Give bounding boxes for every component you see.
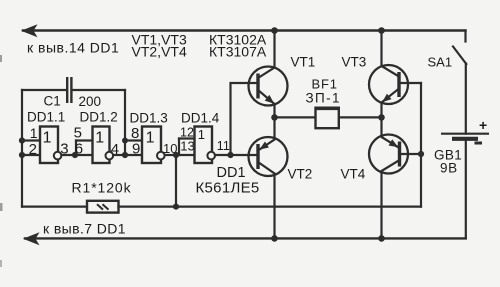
DD1.3 pin 8 wire	[125, 139, 142, 141]
loop top wire left segment to C1	[22, 89, 66, 91]
top supply rail (к выв.14 DD1)	[23, 29, 466, 31]
gate DD1.4 box	[195, 127, 213, 164]
resistor R1 right wire to transistor base bus	[119, 206, 422, 208]
junction dot: DD1.2 out node	[122, 152, 128, 158]
DD1.2 pin 6 wire	[76, 154, 93, 156]
R1 power-rating marks	[97, 204, 109, 209]
VT3 base wire	[399, 82, 421, 84]
DD1.4 pin 13 wire	[176, 154, 195, 156]
junction dot: VT2 collector at bottom rail	[271, 235, 278, 242]
junction dot: loop to DD1.3 pin8	[122, 138, 128, 144]
DD1.4 output wire pin 11	[215, 154, 257, 156]
VT4 circle	[369, 135, 408, 174]
junction dot: DD1.1 out / DD1.2 in	[72, 152, 78, 158]
junction dot: VT1 collector at top rail	[271, 27, 278, 34]
transistor VT2 (PNP)	[249, 117, 313, 238]
VT3 emitter arrow	[382, 94, 392, 103]
svg-text:VT4: VT4	[341, 167, 366, 182]
svg-text:1: 1	[43, 129, 52, 146]
DD1.2 output wire pin 4	[113, 154, 125, 156]
battery bottom wire to bottom rail	[465, 141, 467, 239]
VT1 emitter arrow	[265, 95, 275, 104]
DD1.2 input step wire	[75, 141, 77, 156]
svg-text:8: 8	[131, 125, 139, 142]
VT3 emitter	[382, 89, 400, 118]
svg-text:DD1.2: DD1.2	[80, 110, 118, 125]
bottom rail (к выв.7 DD1)	[25, 237, 466, 239]
svg-text:VT2,VT4: VT2,VT4	[132, 44, 187, 60]
junction dot: DD1.4 out to VT1/VT2 bases	[227, 152, 233, 158]
BF1 top plate (thick)	[315, 107, 340, 111]
svg-text:200: 200	[79, 94, 102, 109]
VT4 emitter arrow (points to base)	[389, 139, 399, 147]
junction dot: VT4 collector at bottom rail	[378, 235, 385, 242]
svg-text:К561ЛЕ5: К561ЛЕ5	[196, 180, 260, 197]
transistor VT4 (PNP, mirrored)	[341, 117, 422, 238]
svg-text:1: 1	[198, 127, 205, 142]
loop top wire right segment from C1	[72, 89, 125, 91]
battery minus sign	[475, 142, 483, 145]
capacitor C1 plates	[67, 77, 71, 103]
svg-text:1: 1	[30, 125, 38, 141]
VT3 circle	[369, 65, 408, 104]
VT1 circle	[249, 67, 288, 106]
VT4 emitter	[382, 117, 400, 148]
svg-text:DD1.1: DD1.1	[27, 110, 65, 125]
svg-text:11: 11	[217, 139, 230, 153]
DD1.1 pin 2 wire	[22, 154, 40, 156]
svg-text:VT2: VT2	[288, 167, 313, 182]
VT4 base bar	[398, 142, 401, 167]
svg-text:DD1.3: DD1.3	[130, 111, 168, 126]
svg-text:9: 9	[132, 141, 140, 158]
VT4 base wire	[400, 153, 422, 155]
sound emitter BF1 body	[316, 108, 339, 128]
gate DD1.3 box	[142, 127, 161, 164]
svg-text:VT3: VT3	[342, 55, 367, 70]
SA1 lower wire to battery	[465, 64, 467, 134]
VT3 collector	[382, 31, 400, 77]
DD1.4 input step wire	[178, 139, 180, 156]
DD1.1 output wire pin 3	[61, 154, 76, 156]
VT1 base bar	[256, 74, 259, 99]
SA1 lever	[453, 47, 466, 65]
battery GB1 positive plate (long)	[441, 133, 489, 135]
transistor VT1 (NPN)	[249, 31, 316, 118]
svg-text:13: 13	[180, 139, 194, 154]
DD1.4 pin 12 wire	[179, 137, 195, 139]
VT2 collector	[258, 162, 275, 238]
svg-text:3: 3	[60, 141, 68, 158]
junction dot: VT1/VT2 emitters	[271, 114, 278, 121]
VT2 circle	[249, 137, 288, 176]
DD1.3 pin 9 wire	[125, 154, 142, 156]
DD1.3 output wire pin 10	[165, 154, 176, 156]
base bus vertical wire (VT3/VT4 bases)	[420, 83, 422, 207]
svg-text:DD1.4: DD1.4	[181, 111, 220, 126]
junction dot: VT3 collector at top rail	[378, 27, 385, 34]
DD1.4 output bubble (pin 11)	[207, 152, 215, 160]
svg-text:BF1: BF1	[312, 77, 338, 92]
wire from DD1.3 output node down to R1 line	[175, 155, 177, 207]
VT1 emitter	[258, 90, 275, 117]
junction dot: R1 to DD1.3 out node	[173, 204, 179, 210]
VT2 base bar	[256, 144, 259, 169]
svg-text:9В: 9В	[440, 161, 458, 176]
DD1.1 pin 1 wire	[22, 139, 40, 141]
svg-text:1: 1	[146, 129, 155, 146]
junction dot: DD1.3 out / DD1.4 in	[173, 152, 179, 158]
resistor R1 body	[87, 201, 119, 213]
svg-text:2: 2	[29, 141, 37, 158]
wire from DD1.4 output node up to VT1 base	[231, 83, 259, 155]
oscillator feedback loop: left vertical wire	[21, 90, 23, 207]
VT4 collector	[382, 160, 400, 238]
svg-text:VT1: VT1	[291, 55, 316, 70]
DD1.1 output bubble (pin 3)	[54, 152, 62, 160]
svg-text:к выв.14 DD1: к выв.14 DD1	[27, 40, 119, 56]
junction dot: VT3/VT4 emitters	[378, 114, 385, 121]
svg-text:R1*120k: R1*120k	[72, 180, 132, 196]
junction dot: VT4 base at bus	[418, 151, 424, 157]
battery GB1 negative plate (short thick)	[452, 137, 478, 141]
svg-text:12: 12	[180, 125, 194, 139]
DD1.2 output bubble (pin 4)	[106, 152, 114, 160]
svg-text:4: 4	[111, 141, 119, 158]
VT3 base bar	[397, 72, 400, 97]
svg-text:+: +	[479, 117, 487, 133]
arrowhead of bottom rail	[23, 232, 40, 245]
VT2 emitter arrow (points to base)	[259, 142, 269, 150]
switch SA1: rail corner down	[464, 31, 466, 42]
svg-text:SA1: SA1	[428, 55, 453, 70]
gate DD1.2 box	[93, 127, 110, 164]
svg-text:ЗП-1: ЗП-1	[306, 91, 341, 106]
arrowhead of top rail	[21, 24, 38, 37]
svg-text:5: 5	[74, 124, 82, 141]
VT1 collector	[258, 31, 275, 79]
resistor R1 left wire	[22, 206, 87, 208]
junction dot: DD1.1 pin1 node	[19, 137, 25, 143]
scanner edge artifacts	[0, 55, 2, 62]
svg-text:к выв.7 DD1: к выв.7 DD1	[43, 221, 126, 237]
transistor VT3 (NPN, mirrored)	[342, 31, 422, 118]
svg-text:C1: C1	[44, 94, 61, 109]
svg-text:КТ3107А: КТ3107А	[209, 44, 267, 60]
DD1.3 output bubble (pin 10)	[157, 152, 165, 160]
wire between emitter midpoints through BF1	[275, 116, 382, 118]
DD1.2 pin 5 wire	[76, 139, 93, 141]
svg-text:1: 1	[95, 129, 104, 146]
gate DD1.1 box	[40, 127, 58, 164]
loop right vertical wire down to DD1.3 inputs	[124, 90, 126, 155]
VT2 emitter	[258, 117, 275, 150]
junction dot: DD1.1 pin2 node	[19, 152, 25, 158]
